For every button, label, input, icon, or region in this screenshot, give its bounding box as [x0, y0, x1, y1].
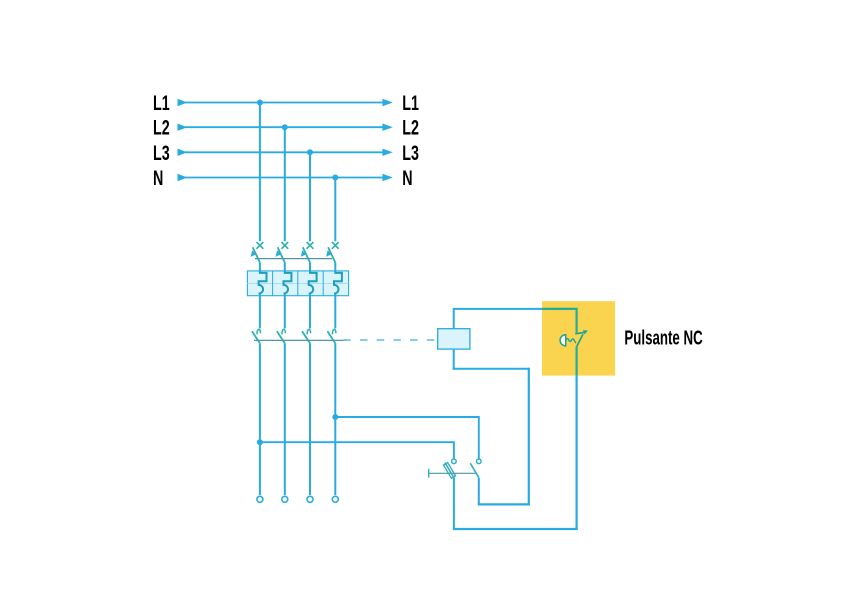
- contactor K1 pole 2 blade: [277, 331, 285, 343]
- contactor K1 pole 1 fixed contact arc: [257, 329, 261, 334]
- thermal-magnetic trip element pole 3: [309, 271, 317, 293]
- aux contact S1 blade: [470, 463, 479, 478]
- contactor K1 pole 4 blade: [327, 331, 335, 343]
- thermal-magnetic trip element pole 2: [284, 271, 292, 293]
- wire fuse switch down to bottom bus: [453, 478, 455, 529]
- terminal circle pole 3: [307, 496, 313, 502]
- pushbutton SB1 arrowhead: [583, 330, 588, 334]
- wire pole 3 trip to contactor: [309, 294, 311, 329]
- handle linkage line: [429, 472, 476, 474]
- breaker Q1 pole 3 latch wedge: [301, 250, 307, 257]
- pushbutton SB1 contact bar: [575, 332, 585, 333]
- trip unit box divider 2: [297, 271, 299, 296]
- wire coil bottom horizontal: [453, 368, 530, 370]
- breaker Q1 pole 2 blade: [278, 247, 285, 262]
- terminal circle pole 1: [257, 496, 263, 502]
- pushbutton SB1 spring squiggle: [566, 339, 576, 344]
- thermal-magnetic trip element pole 1: [259, 271, 267, 293]
- node junction dot on L3: [307, 149, 313, 155]
- breaker Q1 pole 2 contact X: [281, 242, 288, 249]
- terminal circle pole 2: [282, 496, 288, 502]
- wire right riser up to coil loop: [528, 368, 530, 506]
- svg-text:L2: L2: [402, 116, 419, 139]
- fuse switch F1 top terminal circle: [452, 459, 457, 464]
- svg-text:L3: L3: [402, 141, 419, 164]
- wire tap from N down to breaker pole 4: [334, 178, 336, 242]
- contactor K1 pole 2 fixed contact arc: [282, 329, 286, 334]
- trip unit box divider 3: [322, 271, 324, 296]
- svg-text:L1: L1: [153, 91, 170, 114]
- node junction dot on L1 tap: [257, 439, 263, 445]
- wire bus L1 with arrows: [178, 99, 393, 106]
- fuse switch F1 fuse body: [444, 463, 456, 479]
- breaker Q1 pole 1 latch wedge: [251, 250, 257, 257]
- node junction dot on L1: [257, 100, 263, 106]
- contactor K1 pole 3 blade: [302, 331, 310, 343]
- wire L1 tap to fuse switch: [260, 442, 454, 459]
- wire bus N with arrows: [178, 174, 393, 181]
- wire pushbutton down to bottom bus: [575, 375, 577, 531]
- breaker Q1 pole 3 blade: [303, 247, 310, 262]
- wire N tap to aux contact: [335, 417, 479, 459]
- contactor K1 pole 4 fixed contact arc: [332, 329, 336, 334]
- svg-text:Pulsante NC: Pulsante NC: [624, 327, 702, 349]
- node junction dot on N: [332, 175, 338, 181]
- wire pole 4 blade to trip box: [334, 263, 336, 272]
- dashed linkage to coil: [343, 339, 437, 341]
- wire tap from L3 down to breaker pole 3: [309, 152, 311, 241]
- fuse switch manual handle T: [428, 469, 430, 478]
- breaker mechanical linkage line: [255, 258, 332, 260]
- wire pole 1 trip to contactor: [259, 294, 261, 329]
- svg-text:N: N: [153, 166, 163, 189]
- svg-text:L3: L3: [153, 141, 170, 164]
- contactor mechanical linkage line: [254, 339, 347, 341]
- yellow highlight box around Pulsante NC: [542, 301, 615, 375]
- wire coil top to pushbutton: [453, 308, 544, 310]
- wire pushbutton bottom in yellow: [575, 346, 577, 375]
- breaker Q1 pole 1 contact X: [257, 242, 264, 249]
- terminal circle pole 4: [332, 496, 338, 502]
- shunt trip coil A1: [438, 329, 470, 349]
- breaker Q1 pole 4 blade: [328, 247, 335, 262]
- wire tap from L2 down to breaker pole 2: [284, 127, 286, 241]
- wire over yellow to pushbutton top: [543, 309, 577, 333]
- breaker Q1 pole 1 blade: [253, 247, 260, 262]
- svg-text:N: N: [402, 166, 412, 189]
- svg-text:L1: L1: [402, 91, 419, 114]
- wire pole 2 trip to contactor: [284, 294, 286, 329]
- contactor K1 pole 1 blade: [252, 331, 260, 343]
- wire bus L3 with arrows: [178, 149, 393, 156]
- fuse switch F1 blade: [445, 463, 454, 478]
- breaker Q1 pole 4 contact X: [332, 242, 339, 249]
- wire bottom bus to pushbutton return: [453, 528, 578, 530]
- breaker Q1 pole 4 latch wedge: [326, 250, 332, 257]
- wire aux contact to right riser: [478, 503, 530, 505]
- wire coil bottom stub: [453, 349, 455, 370]
- contactor K1 pole 3 fixed contact arc: [307, 329, 311, 334]
- breaker Q1 pole 3 contact X: [307, 242, 314, 249]
- pushbutton SB1 blade: [577, 334, 583, 346]
- aux contact S1 top terminal circle: [477, 459, 482, 464]
- wire pole 4 trip to contactor: [334, 294, 336, 329]
- trip unit box mid line: [247, 283, 348, 285]
- wire bus L2 with arrows: [178, 124, 393, 131]
- breaker Q1 pole 2 latch wedge: [276, 250, 282, 257]
- wire coil top stub: [453, 309, 455, 329]
- node junction dot on L2: [282, 124, 288, 130]
- wire pole 3 blade to trip box: [309, 263, 311, 272]
- thermal-magnetic trip element pole 4: [334, 271, 342, 293]
- wire pole 1 contactor to terminal: [259, 343, 261, 495]
- svg-text:L2: L2: [153, 116, 170, 139]
- wire pole 3 contactor to terminal: [309, 343, 311, 495]
- wire pole 4 contactor to terminal: [334, 343, 336, 495]
- node junction dot on N tap: [332, 414, 338, 420]
- trip unit box divider 1: [272, 271, 274, 296]
- wire aux contact down: [478, 478, 480, 505]
- wire pole 2 blade to trip box: [284, 263, 286, 272]
- pushbutton SB1 actuator head: [560, 335, 566, 346]
- wire pole 1 blade to trip box: [259, 263, 261, 272]
- wire tap from L1 down to breaker pole 1: [259, 103, 261, 242]
- trip unit box of breaker Q1: [247, 271, 348, 296]
- wire pole 2 contactor to terminal: [284, 343, 286, 495]
